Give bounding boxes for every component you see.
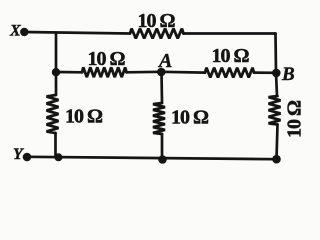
svg-text:10 Ω: 10 Ω <box>138 10 176 32</box>
svg-text:10 Ω: 10 Ω <box>284 100 306 138</box>
svg-text:Y: Y <box>13 146 24 163</box>
svg-text:10 Ω: 10 Ω <box>171 107 209 129</box>
svg-text:10 Ω: 10 Ω <box>212 45 250 67</box>
svg-text:10 Ω: 10 Ω <box>88 48 126 70</box>
svg-text:10 Ω: 10 Ω <box>65 106 103 128</box>
svg-text:X: X <box>9 22 21 39</box>
svg-text:A: A <box>157 50 172 72</box>
svg-text:B: B <box>281 64 295 85</box>
